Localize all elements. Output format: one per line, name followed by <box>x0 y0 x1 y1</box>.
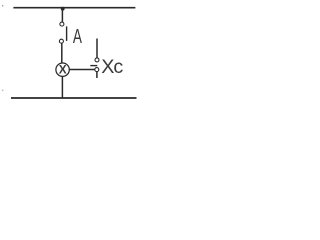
node junction dot on top rail <box>61 7 65 11</box>
capacitor terminal circle (upper) <box>95 58 99 62</box>
wire capacitor branch upper (open top) <box>96 39 98 59</box>
svg-text:X: X <box>59 63 67 77</box>
wire switch to lamp <box>61 43 63 63</box>
svg-text:c: c <box>113 56 123 78</box>
wire lamp right to capacitor branch <box>69 69 95 71</box>
wire bottom rail <box>11 97 137 99</box>
wire left branch upper <box>61 8 63 23</box>
wire capacitor lower stub <box>96 72 98 78</box>
lamp L circle <box>56 63 69 76</box>
speck bottom-left <box>2 89 4 91</box>
capacitor terminal circle (lower) <box>95 68 99 72</box>
svg-text:A: A <box>73 25 83 47</box>
capacitor plate bar <box>90 65 97 67</box>
switch terminal circle (upper) <box>60 22 64 26</box>
speck top-left <box>2 5 4 7</box>
wire lamp bottom to bottom rail <box>61 76 63 98</box>
switch lever bar <box>66 26 68 41</box>
switch terminal circle (lower) <box>59 39 63 43</box>
wire top rail <box>13 7 135 9</box>
